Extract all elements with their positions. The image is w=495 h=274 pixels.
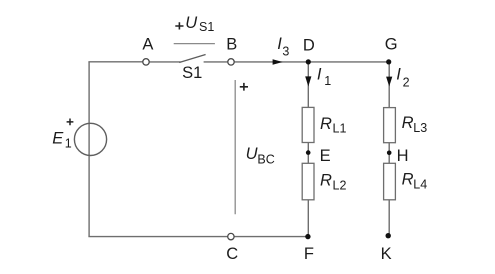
svg-text:L3: L3	[413, 121, 427, 135]
wire left vertical (E1 branch)	[88, 62, 90, 237]
resistor RL4	[384, 163, 396, 200]
svg-text:E: E	[52, 129, 64, 147]
wire: switch to node B	[204, 61, 228, 63]
svg-text:H: H	[397, 147, 409, 165]
switch S1 blade	[179, 55, 205, 63]
current arrow I3	[273, 59, 283, 64]
node H	[387, 151, 392, 156]
U_S1 overline	[174, 43, 215, 45]
wire bottom: corner to node C	[88, 236, 227, 238]
node K	[386, 233, 391, 238]
wire: node C to F	[234, 236, 308, 238]
svg-text:C: C	[226, 245, 238, 263]
U_S1 plus	[175, 22, 183, 29]
resistor RL1	[302, 107, 314, 142]
node C terminal	[228, 233, 234, 239]
wire branch D-E-F vertical	[307, 62, 309, 237]
wire: node A to switch pivot	[149, 61, 180, 63]
svg-text:R: R	[320, 171, 332, 189]
svg-text:S1: S1	[182, 64, 202, 82]
node E	[306, 150, 311, 155]
svg-text:R: R	[320, 115, 332, 133]
E1 polarity +	[67, 119, 74, 126]
node D junction	[306, 59, 311, 64]
svg-text:L4: L4	[413, 178, 427, 192]
U_BC measure line	[234, 80, 236, 214]
svg-text:B: B	[226, 36, 237, 54]
node A terminal	[143, 59, 149, 65]
svg-text:R: R	[402, 170, 414, 188]
svg-text:K: K	[381, 245, 392, 263]
svg-text:G: G	[385, 36, 398, 54]
svg-text:2: 2	[403, 76, 410, 90]
current arrow I1	[305, 76, 311, 86]
svg-text:E: E	[320, 147, 331, 165]
svg-text:BC: BC	[257, 153, 274, 167]
wire branch G-H-K vertical	[388, 62, 390, 236]
svg-text:3: 3	[282, 45, 289, 59]
resistor RL2	[302, 163, 314, 200]
wire top: corner to node A	[88, 61, 142, 63]
svg-text:L2: L2	[333, 179, 347, 193]
node B terminal	[228, 59, 234, 65]
svg-text:U: U	[185, 14, 197, 32]
U_BC plus	[240, 83, 248, 91]
svg-text:U: U	[246, 145, 258, 163]
svg-text:D: D	[303, 37, 315, 55]
svg-text:1: 1	[324, 74, 331, 88]
node F	[305, 234, 310, 239]
resistor RL3	[384, 108, 396, 143]
voltage source E1	[74, 123, 106, 155]
svg-text:L1: L1	[333, 122, 347, 136]
svg-text:I: I	[317, 66, 322, 84]
svg-text:1: 1	[65, 137, 72, 151]
wire: node B to D to G	[234, 61, 388, 63]
svg-text:A: A	[142, 36, 153, 54]
svg-text:S1: S1	[199, 20, 214, 34]
svg-text:I: I	[396, 66, 401, 84]
current arrow I2	[386, 77, 392, 87]
svg-text:F: F	[304, 245, 314, 263]
svg-text:R: R	[402, 114, 414, 132]
node G junction	[386, 59, 391, 64]
